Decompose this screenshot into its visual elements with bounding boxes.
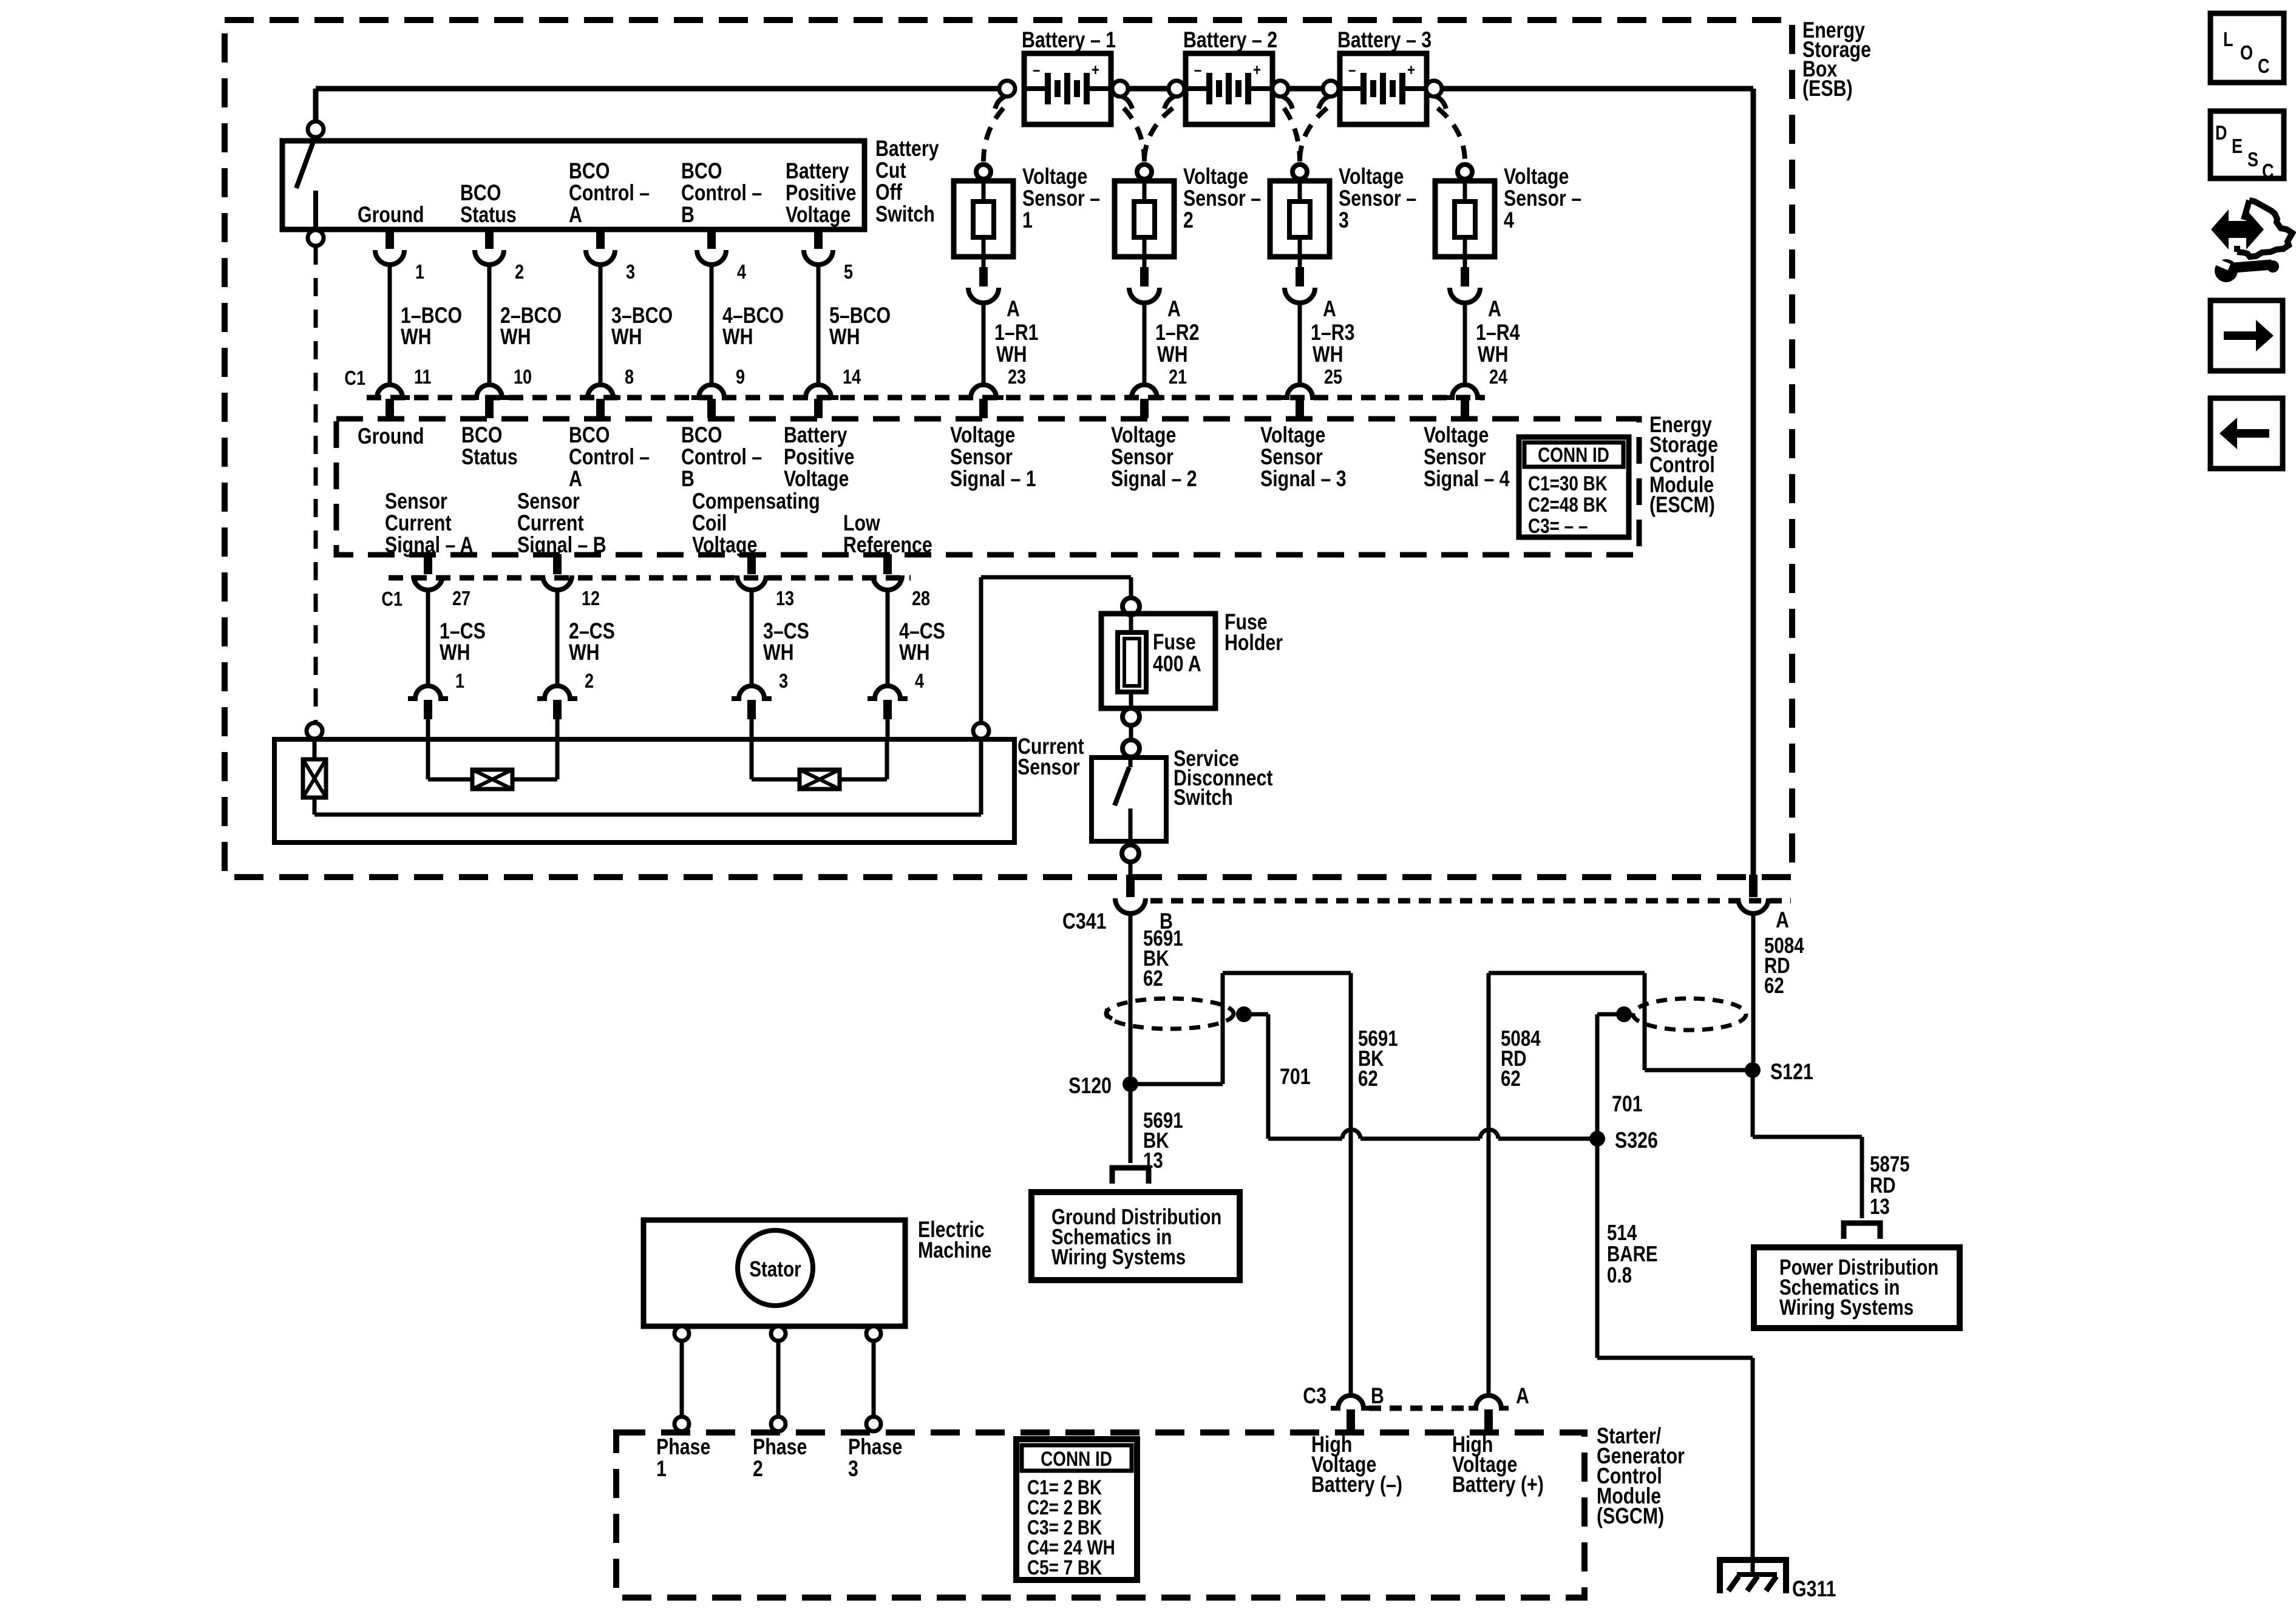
connector hook at battery terminal (B2 positive) [1282, 97, 1292, 109]
dashed sense lead B1- to VS1 [983, 108, 1004, 161]
svg-text:2: 2 [753, 1456, 763, 1482]
terminal at ground distribution [1112, 1168, 1149, 1184]
svg-text:C341: C341 [1062, 909, 1107, 934]
connector at voltage sensor output [1461, 267, 1469, 286]
connector at voltage sensor output [1140, 267, 1149, 286]
svg-text:Voltage: Voltage [692, 532, 757, 558]
svg-text:Battery – 1: Battery – 1 [1022, 27, 1116, 53]
svg-text:9: 9 [736, 367, 745, 388]
svg-text:CONN ID: CONN ID [1538, 443, 1609, 466]
svg-text:27: 27 [452, 588, 470, 610]
shield drain splice dot (right) [1616, 1006, 1632, 1022]
fuse holder box [1101, 614, 1215, 708]
connector C1 cavity 9 [691, 385, 732, 398]
svg-text:WH: WH [1157, 342, 1188, 367]
terminal at power distribution [1844, 1223, 1880, 1239]
dashed sense lead B2+ to VS3 [1284, 108, 1300, 161]
connector hook at battery terminal (B2 negative) [1164, 97, 1175, 109]
svg-text:Status: Status [461, 444, 518, 470]
svg-text:+: + [1253, 61, 1261, 80]
svg-text:WH: WH [899, 640, 930, 665]
svg-text:12: 12 [582, 588, 600, 610]
icon: service information (double arrow, panel, wrench) [2211, 209, 2264, 249]
svg-text:Sensor: Sensor [1017, 754, 1080, 780]
BCO switch pin 4 connector [707, 229, 716, 249]
SGCM CONN ID table [1016, 1439, 1137, 1580]
connector circle below service disconnect switch [1122, 845, 1139, 862]
wire: S121 down to power distribution [1751, 1070, 1755, 1137]
connector at voltage sensor output [979, 267, 988, 286]
BCO switch contact circle (bottom) [308, 230, 324, 246]
connector C3 cavity B (High Voltage Battery –) [1331, 1395, 1371, 1408]
svg-text:Switch: Switch [1173, 785, 1233, 810]
fuse F 400A element [1118, 632, 1146, 692]
svg-text:S326: S326 [1615, 1128, 1658, 1153]
connector C1 cavity 11 [370, 385, 410, 398]
current sensor element (vertical) [313, 739, 317, 759]
ESCM connector C1 cavity 27 [424, 554, 432, 574]
svg-text:1: 1 [656, 1456, 667, 1482]
svg-text:3: 3 [1339, 208, 1349, 233]
svg-text:2: 2 [1183, 208, 1194, 233]
svg-text:13: 13 [776, 588, 794, 610]
BCO switch pin 3 connector [596, 229, 605, 249]
service disconnect switch blade [1129, 758, 1133, 767]
svg-text:Sensor –: Sensor – [1022, 186, 1100, 211]
connector row C1 (lower) dashed line [389, 575, 911, 581]
svg-text:Sensor –: Sensor – [1339, 186, 1416, 211]
connector C1 cavity 23 [963, 385, 1004, 398]
connector at voltage sensor output [1296, 267, 1304, 286]
svg-text:C2=48 BK: C2=48 BK [1528, 493, 1608, 516]
svg-text:11: 11 [414, 367, 432, 388]
icon: previous-page arrow box [2210, 398, 2283, 469]
BCO switch blade [296, 138, 314, 188]
wire: pins 3-4 loop through measuring element [750, 741, 754, 779]
current sensor element (pins 1-2) [472, 770, 512, 789]
svg-text:Reference: Reference [843, 532, 932, 558]
splice S326 [1589, 1131, 1605, 1147]
battery terminal connector circle (B3 positive) [1426, 81, 1442, 97]
battery terminal connector circle (B1 negative) [999, 81, 1015, 97]
svg-text:A: A [1007, 296, 1020, 322]
connector row C3 dashed line [1369, 1406, 1472, 1411]
ESCM connector C1 cavity 13 [747, 554, 756, 574]
svg-text:A: A [1488, 296, 1501, 322]
svg-text:1: 1 [1022, 208, 1033, 233]
svg-text:Signal – 1: Signal – 1 [950, 466, 1036, 492]
icon: next-page arrow box [2210, 300, 2283, 371]
svg-text:28: 28 [912, 588, 930, 610]
wire: pins 1-2 loop through measuring element [426, 741, 430, 779]
ESCM connector C1 cavity 12 [553, 554, 562, 574]
svg-text:C1: C1 [381, 589, 402, 611]
svg-text:WH: WH [401, 324, 432, 350]
connector C1 cavity 14 [798, 385, 838, 398]
svg-text:D: D [2215, 123, 2227, 144]
svg-text:Machine: Machine [918, 1238, 991, 1263]
wire: S121 branch over-down (701 right) [1645, 1068, 1753, 1073]
svg-text:8: 8 [625, 367, 634, 388]
svg-text:A: A [569, 202, 582, 228]
splice S121 [1745, 1062, 1761, 1078]
wire: shield drain 701 to S326 with hops [1244, 1012, 1268, 1017]
svg-text:WH: WH [722, 324, 753, 350]
svg-text:62: 62 [1501, 1066, 1521, 1090]
Starter/Generator Control Module (SGCM) dashed box [616, 1432, 1584, 1598]
power distribution reference box [1754, 1247, 1960, 1328]
svg-text:1: 1 [455, 671, 464, 693]
svg-text:Voltage: Voltage [784, 466, 849, 492]
dashed sense lead B3+ to VS4 [1438, 108, 1465, 161]
svg-text:–: – [1194, 61, 1201, 80]
svg-text:25: 25 [1324, 367, 1342, 388]
svg-text:Ground: Ground [358, 424, 424, 449]
connector row C1 dashed line [367, 395, 1484, 401]
current sensor input circle (left) [307, 723, 322, 739]
connector C1 cavity 8 [580, 385, 620, 398]
svg-text:13: 13 [1870, 1194, 1890, 1218]
battery terminal connector circle (B3 negative) [1323, 81, 1339, 97]
svg-text:WH: WH [500, 324, 531, 350]
Energy Storage Box (ESB) dashed enclosure [225, 20, 1792, 877]
dashed wire from BCO switch lower contact to current sensor [314, 246, 318, 722]
svg-text:C5= 7 BK: C5= 7 BK [1027, 1556, 1102, 1579]
connector hook at battery terminal (B1 negative) [995, 97, 1005, 109]
svg-text:C1=30 BK: C1=30 BK [1528, 472, 1608, 495]
svg-text:Signal – 3: Signal – 3 [1260, 466, 1347, 492]
connector circle above service disconnect switch [1123, 740, 1140, 757]
connector hook at battery terminal (B3 negative) [1319, 97, 1329, 109]
svg-text:E: E [2232, 136, 2243, 158]
current sensor pin 2 connector [537, 686, 577, 699]
svg-text:4: 4 [915, 671, 924, 693]
battery terminal connector circle (B1 positive) [1112, 81, 1128, 97]
connector C341 cavity B [1126, 875, 1135, 897]
svg-text:+: + [1092, 61, 1099, 80]
ground G311 symbol [1720, 1560, 1786, 1593]
svg-text:A: A [1323, 296, 1336, 322]
svg-text:C: C [2258, 56, 2270, 78]
svg-text:A: A [569, 466, 582, 492]
svg-text:4: 4 [737, 262, 746, 283]
svg-text:L: L [2223, 29, 2233, 51]
svg-text:B: B [681, 466, 695, 492]
svg-text:C3= – –: C3= – – [1528, 514, 1588, 537]
ground distribution reference box [1031, 1192, 1240, 1280]
svg-text:Status: Status [460, 202, 517, 228]
phase 2 terminal circles and wire [776, 1326, 781, 1426]
svg-text:Stator: Stator [749, 1256, 801, 1281]
stator [738, 1230, 813, 1306]
connector C1 cavity 24 [1445, 385, 1485, 398]
connector hook at battery terminal (B1 positive) [1122, 97, 1132, 109]
svg-text:Signal – 4: Signal – 4 [1424, 466, 1510, 492]
BCO switch contact circle (top) [308, 121, 324, 137]
svg-text:Holder: Holder [1224, 630, 1283, 656]
svg-text:WH: WH [569, 640, 600, 665]
svg-text:O: O [2240, 42, 2253, 64]
dashed sense lead B2- to VS2 [1144, 108, 1173, 161]
ESCM CONN ID table [1519, 437, 1629, 537]
svg-text:C3: C3 [1303, 1383, 1326, 1409]
battery terminal connector circle (B2 positive) [1272, 81, 1288, 97]
svg-text:C: C [2262, 161, 2274, 183]
svg-text:23: 23 [1008, 367, 1026, 388]
electric machine box [644, 1220, 905, 1326]
svg-text:S121: S121 [1770, 1059, 1813, 1085]
connector row C341 dashed line [1150, 898, 1791, 904]
phase 3 terminal circles and wire [872, 1326, 876, 1426]
BCO switch pin 1 connector [385, 229, 394, 249]
svg-text:Battery (+): Battery (+) [1452, 1472, 1544, 1497]
svg-text:Sensor –: Sensor – [1504, 186, 1581, 211]
svg-text:C1: C1 [344, 368, 365, 390]
svg-text:WH: WH [1478, 342, 1509, 367]
svg-text:2: 2 [585, 671, 594, 693]
BCO switch pin 2 connector [485, 229, 494, 249]
ESCM connector C1 cavity 28 [883, 554, 892, 574]
dashed sense lead B3- to VS3 [1300, 108, 1327, 161]
svg-text:10: 10 [514, 367, 532, 388]
icon: DESC box [2210, 111, 2284, 178]
Energy Storage Control Module (ESCM) dashed box [336, 419, 1639, 555]
wire: S120 branch up-over-down (701 left) [1130, 1082, 1223, 1086]
current sensor pin 4 connector [868, 686, 908, 699]
svg-text:400 A: 400 A [1153, 651, 1201, 677]
svg-text:62: 62 [1358, 1066, 1378, 1090]
connector hook at battery terminal (B3 positive) [1436, 97, 1446, 109]
svg-text:701: 701 [1612, 1091, 1643, 1117]
wire: current sensor internal bottom run [314, 813, 981, 817]
wire: 514 BARE 0.8 from S326 to G311 [1595, 1139, 1600, 1358]
connector circle above fuse holder [1123, 598, 1140, 615]
svg-text:A: A [1776, 907, 1789, 933]
wire: S120 to ground distribution [1129, 1084, 1133, 1163]
svg-text:14: 14 [843, 367, 861, 388]
svg-text:Switch: Switch [875, 202, 935, 227]
dashed sense lead B1+ to VS2 [1124, 108, 1144, 161]
connector C3 cavity A (High Voltage Battery +) [1469, 1395, 1509, 1408]
svg-text:3: 3 [779, 671, 788, 693]
svg-text:Signal – A: Signal – A [385, 532, 474, 558]
svg-text:Battery – 2: Battery – 2 [1183, 27, 1277, 53]
shield ellipse (right, around 5084 wire) [1633, 998, 1746, 1030]
connector C1 cavity 21 [1124, 385, 1164, 398]
svg-text:0.8: 0.8 [1607, 1263, 1632, 1287]
connector C1 cavity 25 [1280, 385, 1320, 398]
svg-text:Voltage: Voltage [786, 202, 851, 228]
svg-text:WH: WH [829, 324, 860, 350]
svg-text:Signal – 2: Signal – 2 [1111, 466, 1197, 492]
battery cut off switch box [282, 141, 864, 229]
svg-text:WH: WH [996, 342, 1027, 367]
svg-text:(ESB): (ESB) [1802, 76, 1853, 101]
svg-text:–: – [1348, 61, 1356, 80]
service disconnect switch box [1092, 758, 1166, 841]
splice S120 [1123, 1076, 1138, 1092]
svg-text:701: 701 [1280, 1064, 1311, 1090]
svg-text:WH: WH [1313, 342, 1343, 367]
svg-text:Ground: Ground [358, 202, 424, 228]
svg-text:62: 62 [1143, 966, 1163, 990]
shield ellipse (left, around 5691 wire) [1106, 998, 1234, 1029]
svg-text:+: + [1407, 61, 1415, 80]
svg-text:(ESCM): (ESCM) [1649, 492, 1715, 518]
svg-text:2: 2 [515, 262, 524, 283]
wire: shield drain (right) down to S326 [1597, 1012, 1624, 1017]
svg-text:Battery – 3: Battery – 3 [1337, 27, 1432, 53]
svg-text:Wiring Systems: Wiring Systems [1779, 1295, 1914, 1319]
shield drain splice dot (left) [1236, 1006, 1252, 1022]
wire: current sensor output up and over to fuse holder [979, 577, 983, 723]
svg-text:WH: WH [763, 640, 794, 665]
current sensor pin 3 connector [732, 686, 772, 699]
svg-text:4: 4 [1504, 208, 1514, 233]
current sensor element (pins 3-4) [800, 770, 840, 789]
svg-text:WH: WH [440, 640, 470, 665]
voltage sensor VS3: Voltage Sensor – 3 [1292, 164, 1307, 179]
svg-text:1: 1 [415, 262, 424, 283]
svg-text:3: 3 [626, 262, 635, 283]
svg-text:Wiring Systems: Wiring Systems [1051, 1244, 1186, 1269]
svg-text:WH: WH [611, 324, 642, 350]
current sensor output circle (right) [973, 723, 989, 739]
connector circle below fuse holder [1123, 708, 1140, 725]
voltage sensor VS2: Voltage Sensor – 2 [1137, 164, 1152, 179]
svg-text:21: 21 [1169, 367, 1187, 388]
BCO switch pin 5 connector [814, 229, 823, 249]
svg-text:(SGCM): (SGCM) [1597, 1503, 1664, 1529]
connector C341 cavity A [1749, 875, 1758, 897]
svg-text:A: A [1516, 1383, 1529, 1409]
svg-text:24: 24 [1489, 367, 1507, 388]
voltage sensor VS1: Voltage Sensor – 1 [976, 164, 991, 179]
svg-text:Signal – B: Signal – B [517, 532, 606, 558]
voltage sensor VS4: Voltage Sensor – 4 [1458, 164, 1472, 179]
svg-text:5: 5 [844, 262, 853, 283]
svg-text:CONN ID: CONN ID [1041, 1447, 1112, 1470]
svg-text:–: – [1033, 61, 1040, 80]
svg-text:Sensor –: Sensor – [1183, 186, 1261, 211]
wire: main positive bus from BCO switch to batteries and right side down to C341-A [316, 86, 1007, 92]
svg-text:A: A [1167, 296, 1181, 322]
svg-text:B: B [1371, 1383, 1384, 1409]
svg-text:Battery (–): Battery (–) [1311, 1472, 1402, 1497]
svg-text:B: B [681, 202, 695, 228]
svg-text:G311: G311 [1792, 1576, 1836, 1602]
battery terminal connector circle (B2 negative) [1169, 81, 1184, 97]
current sensor pin 1 connector [408, 686, 448, 699]
connector C1 cavity 10 [469, 385, 509, 398]
icon: LOC box [2210, 13, 2284, 83]
svg-text:S120: S120 [1068, 1073, 1112, 1099]
svg-text:S: S [2247, 149, 2258, 171]
current sensor box [274, 739, 1014, 842]
svg-text:3: 3 [848, 1456, 858, 1482]
svg-text:62: 62 [1764, 973, 1784, 997]
phase 1 terminal circles and wire [680, 1326, 684, 1426]
